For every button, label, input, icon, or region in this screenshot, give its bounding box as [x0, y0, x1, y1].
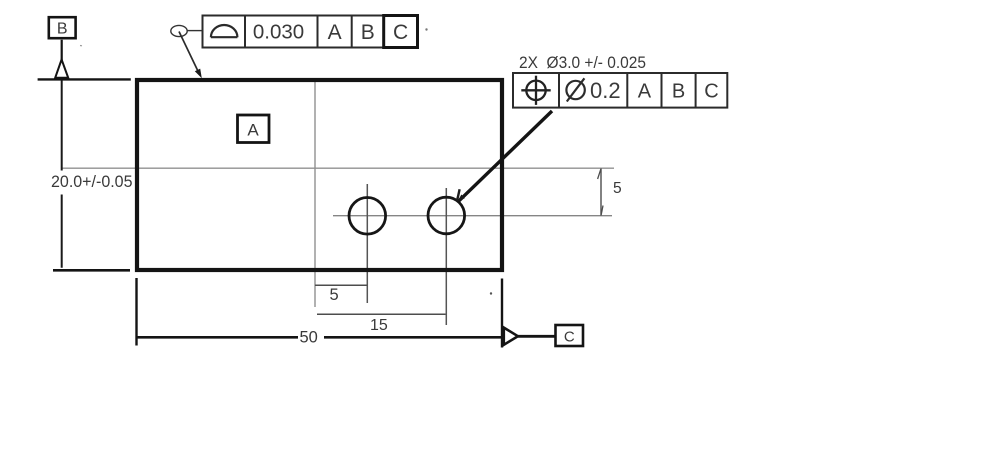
svg-text:5: 5 — [613, 180, 622, 197]
svg-text:0.2: 0.2 — [590, 78, 621, 103]
svg-text:A: A — [247, 121, 259, 140]
svg-text:20.0+/-0.05: 20.0+/-0.05 — [51, 173, 133, 191]
svg-text:B: B — [361, 21, 375, 44]
svg-text:5: 5 — [330, 286, 339, 304]
svg-text:C: C — [704, 81, 718, 103]
svg-text:A: A — [638, 81, 652, 103]
svg-text:B: B — [672, 81, 685, 103]
svg-text:B: B — [57, 21, 68, 38]
svg-text:15: 15 — [370, 317, 388, 334]
svg-text:C: C — [393, 21, 408, 44]
svg-text:50: 50 — [300, 329, 318, 347]
svg-text:A: A — [328, 21, 342, 44]
svg-text:2X Ø3.0 +/- 0.025: 2X Ø3.0 +/- 0.025 — [519, 53, 646, 72]
svg-text:0.030: 0.030 — [253, 21, 304, 44]
svg-text:C: C — [564, 329, 575, 346]
